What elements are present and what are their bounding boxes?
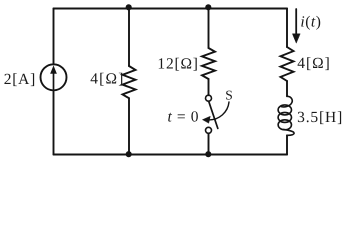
current source I1 2[A] — [41, 64, 67, 90]
wire right upper — [286, 9, 288, 48]
svg-text:S: S — [225, 87, 233, 102]
svg-text:i(t): i(t) — [300, 13, 321, 30]
svg-text:t = 0: t = 0 — [168, 108, 200, 125]
wire top — [54, 8, 288, 10]
current arrow i(t) — [292, 9, 300, 43]
switch S terminal top — [206, 95, 212, 101]
inductor L1 3.5[H] — [278, 96, 294, 135]
node junction top-mid branch — [205, 4, 211, 10]
resistor R1 4[ohm] — [123, 66, 136, 98]
resistor R3 4[ohm] right — [281, 47, 294, 81]
wire left upper — [53, 9, 55, 65]
node junction bottom-left branch — [126, 151, 132, 157]
node junction top-left branch — [126, 4, 132, 10]
svg-text:4[Ω]: 4[Ω] — [90, 71, 124, 88]
switch S terminal bottom — [206, 127, 212, 133]
node junction bottom-mid branch — [205, 151, 211, 157]
wire right lower — [286, 135, 288, 154]
wire branch1 upper — [128, 9, 130, 67]
resistor R2 12[ohm] — [202, 48, 215, 79]
svg-text:4[Ω]: 4[Ω] — [297, 55, 331, 72]
svg-text:12[Ω]: 12[Ω] — [157, 55, 198, 72]
svg-text:2[A]: 2[A] — [4, 71, 36, 88]
wire branch2 lower — [208, 133, 210, 154]
wire right middle — [286, 81, 288, 96]
wire branch2 middle — [208, 79, 210, 95]
wire branch1 lower — [128, 98, 130, 154]
wire bottom — [54, 154, 288, 156]
svg-text:3.5[H]: 3.5[H] — [297, 109, 342, 126]
wire branch2 upper — [208, 9, 210, 49]
switch S closing arrow — [203, 102, 230, 123]
switch S lever — [209, 102, 218, 128]
wire left lower — [53, 90, 55, 154]
